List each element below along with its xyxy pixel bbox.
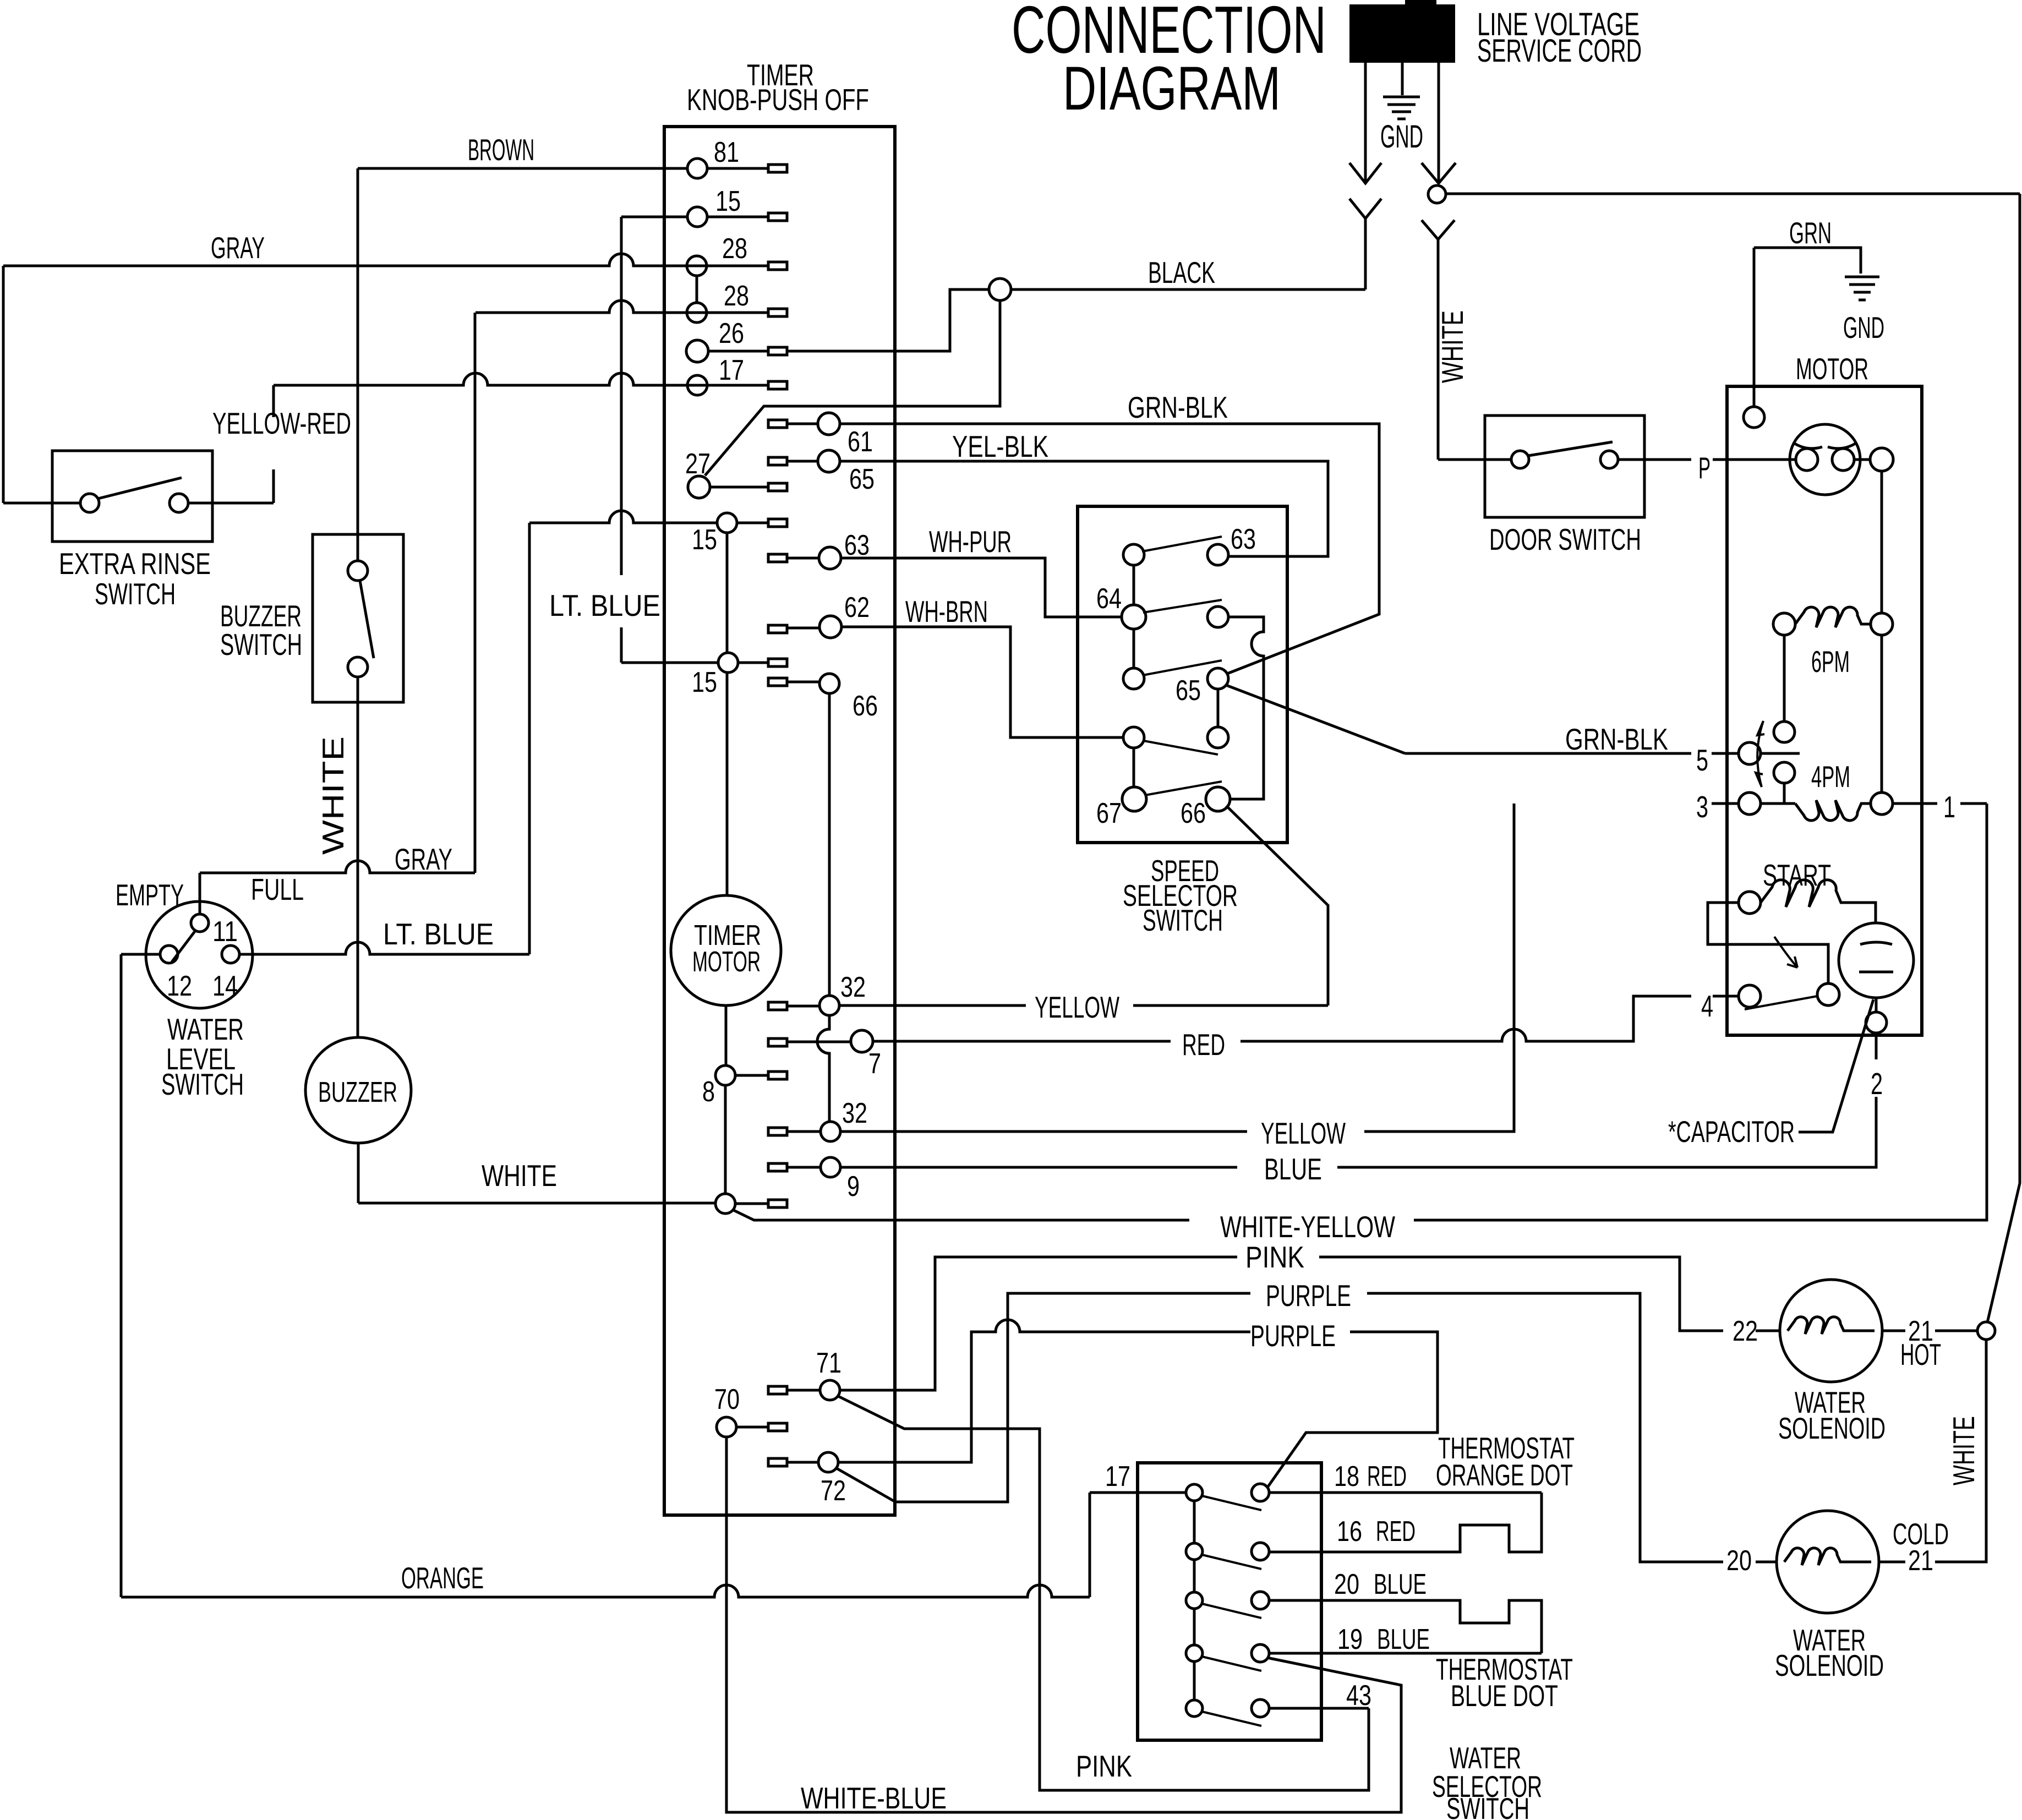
svg-text:71: 71 xyxy=(816,1347,841,1379)
terminal 63 timer xyxy=(768,529,870,569)
node black junction xyxy=(989,278,1011,300)
receptacle junction (white side) xyxy=(1422,185,1455,460)
wire ORANGE xyxy=(121,1493,1090,1597)
wire GRAY from far left to 28 xyxy=(3,231,768,266)
hot water solenoid xyxy=(1733,1280,1977,1445)
capacitor label with pointer xyxy=(1668,999,1873,1149)
svg-text:GRAY: GRAY xyxy=(395,842,452,876)
svg-text:RED: RED xyxy=(1182,1027,1225,1062)
water selector 17 terminal row xyxy=(1090,1461,1203,1501)
svg-text:SWITCH: SWITCH xyxy=(1446,1791,1529,1820)
svg-text:WH-PUR: WH-PUR xyxy=(929,524,1012,559)
timer motor circle xyxy=(671,673,781,1065)
svg-text:EXTRA RINSE: EXTRA RINSE xyxy=(59,546,211,581)
svg-text:62: 62 xyxy=(844,592,870,624)
svg-text:FULL: FULL xyxy=(251,872,304,906)
svg-text:PURPLE: PURPLE xyxy=(1266,1278,1351,1313)
svg-text:YELLOW: YELLOW xyxy=(1035,990,1119,1024)
wire 1 xyxy=(1893,790,1987,824)
svg-text:YELLOW: YELLOW xyxy=(1261,1116,1346,1150)
svg-text:GRN-BLK: GRN-BLK xyxy=(1565,722,1668,756)
speed selector right column terminals xyxy=(1176,523,1256,829)
wire 5 xyxy=(1405,742,1800,777)
wire 28b row from gray vertical xyxy=(476,300,768,313)
wire 19 BLUE xyxy=(1269,1624,1573,1713)
svg-text:GRN: GRN xyxy=(1789,216,1832,250)
svg-text:SOLENOID: SOLENOID xyxy=(1775,1648,1884,1682)
svg-text:7: 7 xyxy=(868,1048,881,1080)
wire 32a-32b with hop over red xyxy=(817,1015,829,1122)
door switch xyxy=(1435,310,1644,556)
wire PURPLE upper 72 blade to cold solenoid 20 xyxy=(837,1278,1723,1562)
svg-text:61: 61 xyxy=(848,426,873,458)
svg-text:SWITCH: SWITCH xyxy=(1143,903,1223,937)
wire GRAY lower to water level 11 xyxy=(200,313,475,914)
receptacle fork (black side) xyxy=(1349,199,1381,289)
terminal 15 third xyxy=(621,653,787,698)
terminal 15 second xyxy=(529,511,787,556)
wire 65row right link to 66 xyxy=(1228,617,1264,799)
svg-text:5: 5 xyxy=(1696,743,1708,777)
svg-text:WHITE: WHITE xyxy=(1947,1416,1981,1485)
svg-text:18: 18 xyxy=(1334,1461,1359,1493)
wire YELLOW second 32b to motor 3 xyxy=(840,804,1514,1150)
terminal 8 xyxy=(702,1065,787,1108)
svg-text:WHITE-BLUE: WHITE-BLUE xyxy=(801,1781,947,1815)
node white junction right xyxy=(1977,1322,1995,1340)
svg-text:27: 27 xyxy=(685,448,711,480)
svg-text:SERVICE CORD: SERVICE CORD xyxy=(1477,33,1642,69)
wire BLUE 9 to motor 2 xyxy=(840,1097,1876,1186)
svg-text:SOLENOID: SOLENOID xyxy=(1778,1411,1886,1445)
wire YELLOW 32a to 66 diag xyxy=(839,990,1328,1024)
svg-text:16: 16 xyxy=(1337,1516,1362,1548)
svg-text:LT. BLUE: LT. BLUE xyxy=(383,917,494,951)
speed selector left column terminals xyxy=(1096,544,1146,829)
run arrow xyxy=(1774,937,1797,968)
terminal 32 second xyxy=(768,1097,867,1141)
svg-text:KNOB-PUSH OFF: KNOB-PUSH OFF xyxy=(687,83,869,117)
START winding xyxy=(1739,858,1876,923)
svg-text:81: 81 xyxy=(714,136,739,168)
wire 20 BLUE with thermostat blue dot xyxy=(1269,1568,1542,1653)
svg-text:28: 28 xyxy=(722,233,747,265)
wire 12 to orange corner xyxy=(121,954,160,1597)
terminal 15 top xyxy=(621,185,787,227)
wire GRN with ground xyxy=(1754,216,1884,407)
svg-text:63: 63 xyxy=(844,529,870,561)
svg-text:3: 3 xyxy=(1696,790,1708,824)
terminal 61 xyxy=(768,413,873,458)
svg-text:BROWN: BROWN xyxy=(468,133,534,167)
wire white junction to cold 21 xyxy=(1935,1340,1986,1562)
wire RED 7 to motor 4 xyxy=(873,996,1691,1062)
svg-text:WHITE-YELLOW: WHITE-YELLOW xyxy=(1220,1210,1395,1244)
water selector switch box xyxy=(1138,1463,1321,1740)
wire 65 diagonal to grn-blk 5 xyxy=(1226,685,1405,753)
svg-text:8: 8 xyxy=(702,1076,715,1108)
wire LT. BLUE lower from 14 xyxy=(239,523,529,954)
svg-text:43: 43 xyxy=(1346,1680,1371,1712)
svg-text:*CAPACITOR: *CAPACITOR xyxy=(1668,1114,1795,1149)
svg-text:BUZZER: BUZZER xyxy=(318,1076,397,1108)
svg-text:YEL-BLK: YEL-BLK xyxy=(952,429,1048,463)
svg-text:ORANGE: ORANGE xyxy=(401,1561,484,1595)
water selector left column xyxy=(1186,1501,1203,1717)
wire WHITE from buzzer to timer xyxy=(358,1158,715,1203)
svg-text:1: 1 xyxy=(1943,790,1955,824)
terminal 28 a xyxy=(687,233,787,276)
speed selector switch box xyxy=(1078,506,1287,843)
wire brown vertical to buzzer switch xyxy=(357,168,359,561)
terminal 7 xyxy=(768,1030,881,1080)
svg-text:15: 15 xyxy=(692,666,717,698)
svg-text:19: 19 xyxy=(1337,1624,1363,1655)
svg-text:HOT: HOT xyxy=(1900,1337,1941,1371)
motor symbol xyxy=(1790,424,1893,495)
svg-text:SWITCH: SWITCH xyxy=(161,1067,244,1101)
svg-text:17: 17 xyxy=(719,354,744,386)
wire 43 xyxy=(1269,1680,1371,1712)
svg-text:PURPLE: PURPLE xyxy=(1250,1319,1336,1353)
svg-text:SWITCH: SWITCH xyxy=(220,627,302,662)
wire PINK 71 to hot solenoid 22 xyxy=(840,1240,1723,1390)
speed selector blades xyxy=(1142,537,1222,795)
terminal 66 xyxy=(768,674,878,722)
wire LT. BLUE vertical with label gap xyxy=(549,217,660,663)
wire 16 RED label xyxy=(1337,1516,1416,1548)
svg-text:BLUE DOT: BLUE DOT xyxy=(1451,1679,1558,1713)
svg-text:9: 9 xyxy=(847,1171,860,1203)
svg-text:PINK: PINK xyxy=(1076,1749,1132,1783)
svg-text:11: 11 xyxy=(212,916,238,948)
wire 66 diagonal to yellow xyxy=(1226,806,1328,1005)
terminal 70 xyxy=(714,1384,787,1437)
svg-text:DOOR SWITCH: DOOR SWITCH xyxy=(1489,522,1641,556)
water selector blades xyxy=(1202,1496,1261,1726)
capacitor xyxy=(1839,923,1914,1101)
svg-text:66: 66 xyxy=(1181,797,1206,829)
wire WH-PUR 63 to speed selector 64 xyxy=(841,524,1123,617)
svg-text:15: 15 xyxy=(692,524,717,556)
svg-text:BLUE: BLUE xyxy=(1374,1568,1427,1600)
svg-text:WH-BRN: WH-BRN xyxy=(905,594,988,628)
svg-text:64: 64 xyxy=(1096,583,1122,615)
svg-text:RED: RED xyxy=(1376,1516,1416,1548)
svg-text:GND: GND xyxy=(1843,310,1884,345)
svg-text:2: 2 xyxy=(1871,1067,1883,1101)
svg-text:28: 28 xyxy=(724,280,749,312)
svg-text:20: 20 xyxy=(1334,1568,1359,1600)
svg-text:15: 15 xyxy=(715,185,741,217)
motor ground terminal xyxy=(1744,407,1764,428)
wire GRN-BLK 61 to speed selector xyxy=(840,390,1379,674)
buzzer switch box xyxy=(220,534,403,702)
buzzer xyxy=(305,1037,411,1203)
svg-text:LT. BLUE: LT. BLUE xyxy=(549,588,660,622)
6PM winding xyxy=(1773,607,1893,742)
wire link 15-15 vertical xyxy=(726,533,729,653)
wire white buzzer vertical xyxy=(316,677,358,1037)
wire 71 blade to pink bottom 43 xyxy=(838,1396,1369,1790)
plug ground stub xyxy=(1401,63,1404,95)
start switch loop xyxy=(1708,903,1839,1005)
terminal 71 xyxy=(768,1347,841,1400)
wire YEL-BLK 65 to speed selector 63 xyxy=(840,429,1328,556)
svg-text:SWITCH: SWITCH xyxy=(95,577,176,611)
wire P to motor xyxy=(1619,451,1796,485)
wire BLACK xyxy=(1010,218,1365,289)
svg-text:P: P xyxy=(1698,451,1710,485)
svg-text:BLUE: BLUE xyxy=(1264,1152,1322,1186)
extra rinse switch box xyxy=(3,266,212,611)
timer box xyxy=(664,127,895,1515)
terminal 62 timer xyxy=(768,592,870,638)
terminal 81 xyxy=(687,136,787,178)
svg-text:ORANGE DOT: ORANGE DOT xyxy=(1436,1458,1573,1492)
thermostat orange dot xyxy=(1269,1431,1575,1552)
wire white top rail xyxy=(1446,194,2020,1322)
svg-text:PINK: PINK xyxy=(1245,1240,1304,1274)
svg-text:MOTOR: MOTOR xyxy=(1796,352,1868,386)
svg-text:MOTOR: MOTOR xyxy=(692,946,761,978)
wire 66 down to 32 xyxy=(828,693,831,996)
wire 8 to white terminal xyxy=(724,1085,727,1194)
wire 4 with blade xyxy=(1701,985,1817,1023)
terminal 9 xyxy=(768,1157,860,1203)
svg-text:70: 70 xyxy=(714,1384,740,1415)
svg-text:YELLOW-RED: YELLOW-RED xyxy=(212,406,351,440)
terminal white xyxy=(715,1194,787,1214)
svg-text:14: 14 xyxy=(212,970,238,1002)
svg-text:WHITE: WHITE xyxy=(1435,310,1469,383)
wire black to timer 26 xyxy=(787,289,990,351)
svg-text:EMPTY: EMPTY xyxy=(116,878,184,912)
svg-text:32: 32 xyxy=(842,1097,867,1129)
cold water solenoid xyxy=(1726,1511,1949,1682)
4PM winding xyxy=(1696,759,1893,824)
wire PURPLE lower 72 to thermostat 18 xyxy=(838,1319,1438,1488)
terminal 28 b xyxy=(687,276,787,323)
wire WHITE-BLUE 70 to 19 blade xyxy=(726,1437,1401,1815)
svg-text:GRN-BLK: GRN-BLK xyxy=(1128,390,1228,424)
terminal 72 xyxy=(768,1452,846,1507)
wire motor right vertical xyxy=(1881,471,1883,792)
svg-text:12: 12 xyxy=(167,970,192,1002)
terminal 27 xyxy=(685,448,787,498)
wire WH-BRN 62 to speed selector lower left xyxy=(841,594,1124,737)
wire 18 RED with thermostat orange dot xyxy=(1269,1461,1542,1493)
wire WHITE-YELLOW diagonal from white terminal xyxy=(734,1210,1189,1220)
water selector right column xyxy=(1252,1484,1269,1717)
terminal 26 xyxy=(686,318,787,362)
svg-text:4PM: 4PM xyxy=(1811,759,1850,794)
svg-text:67: 67 xyxy=(1096,797,1122,829)
svg-text:RED: RED xyxy=(1367,1461,1407,1493)
wire grn-blk junction to 27 xyxy=(705,300,1000,476)
svg-text:17: 17 xyxy=(1105,1461,1130,1493)
terminal 32 first xyxy=(768,971,866,1015)
plug prong white (right) with arrow xyxy=(1422,63,1456,183)
svg-text:66: 66 xyxy=(852,690,878,722)
title CONNECTION DIAGRAM xyxy=(1012,0,1326,123)
svg-text:BLUE: BLUE xyxy=(1377,1624,1430,1655)
svg-text:GND: GND xyxy=(1380,119,1423,155)
line voltage service cord plug (black) xyxy=(1349,0,1642,69)
motor box xyxy=(1727,386,1922,1035)
terminal 17 xyxy=(687,354,787,395)
svg-text:DIAGRAM: DIAGRAM xyxy=(1063,54,1281,123)
svg-text:65: 65 xyxy=(1176,675,1201,707)
svg-text:WATER: WATER xyxy=(167,1012,244,1046)
svg-text:22: 22 xyxy=(1733,1315,1758,1347)
svg-text:65: 65 xyxy=(849,463,875,495)
wire YELLOW-RED row 17 xyxy=(212,373,768,503)
svg-text:COLD: COLD xyxy=(1893,1517,1949,1551)
centrifugal switch arrow xyxy=(1756,721,1764,787)
svg-text:32: 32 xyxy=(840,971,866,1003)
svg-text:6PM: 6PM xyxy=(1811,644,1850,679)
svg-text:72: 72 xyxy=(821,1475,846,1507)
terminal 65 timer xyxy=(768,450,875,495)
svg-text:26: 26 xyxy=(719,318,744,349)
ground symbol (plug) xyxy=(1383,97,1420,119)
svg-text:63: 63 xyxy=(1231,523,1256,555)
wire WHITE-YELLOW to motor 1 xyxy=(1220,804,1987,1244)
wire BROWN xyxy=(358,133,687,168)
svg-text:BLACK: BLACK xyxy=(1148,255,1215,289)
plug prong black (left) with arrow xyxy=(1349,63,1381,183)
svg-text:GRAY: GRAY xyxy=(211,231,265,265)
svg-text:WHITE: WHITE xyxy=(482,1158,557,1193)
svg-text:4: 4 xyxy=(1701,989,1713,1023)
svg-text:20: 20 xyxy=(1726,1545,1752,1577)
svg-text:WHITE: WHITE xyxy=(316,736,350,855)
water level switch xyxy=(116,872,304,1101)
